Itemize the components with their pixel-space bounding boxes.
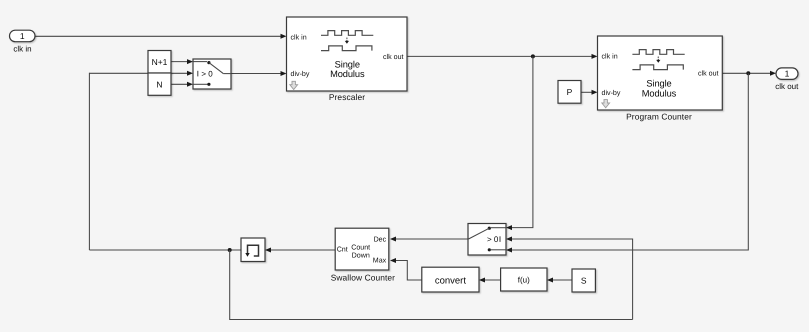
outport 1 clk out [775, 68, 799, 91]
svg-text:Cnt: Cnt [337, 246, 348, 254]
wire f(u) to convert [479, 278, 501, 283]
svg-text:1: 1 [785, 69, 790, 79]
inport 1 clk in [10, 30, 36, 53]
constant N+1 [148, 51, 171, 74]
svg-text:Single: Single [646, 79, 671, 89]
svg-text:P: P [567, 87, 573, 97]
svg-text:clk out: clk out [383, 53, 404, 61]
block Prescaler (Single Modulus) [287, 17, 408, 102]
wire J2 down to Switch2 in3 [506, 73, 748, 252]
switch SW1 [193, 59, 231, 89]
svg-text:clk out: clk out [775, 82, 799, 91]
variant badge arrow [602, 100, 610, 108]
junction J3 on feedback wire [228, 248, 232, 252]
block convert (data type conversion) [422, 267, 479, 292]
svg-text:> 0: > 0 [201, 69, 213, 78]
svg-text:clk in: clk in [291, 33, 307, 41]
svg-text:N+1: N+1 [152, 57, 168, 67]
svg-text:Modulus: Modulus [642, 88, 677, 98]
wire N to Switch1 in3 [171, 82, 193, 87]
svg-text:Down: Down [352, 251, 370, 259]
icon fast clock waveform [632, 50, 684, 55]
icon slow clock waveform [632, 65, 683, 70]
constant P [558, 81, 581, 104]
wire Switch2 out to Swallow Counter Dec [390, 237, 468, 242]
block Swallow Counter [331, 228, 395, 282]
svg-text:div-by: div-by [602, 89, 621, 97]
block Program Counter (Single Modulus) [598, 36, 723, 121]
wire Swallow Counter Cnt to Memory [265, 248, 336, 253]
svg-text:> 0: > 0 [487, 235, 499, 244]
svg-text:Single: Single [335, 59, 360, 69]
svg-text:clk in: clk in [602, 52, 618, 60]
svg-text:Modulus: Modulus [330, 69, 365, 79]
svg-text:Dec: Dec [374, 235, 387, 243]
block f(u) function [501, 268, 547, 291]
memory block (feedback loop icon) [241, 238, 265, 262]
icon slow clock waveform [321, 46, 372, 51]
svg-text:clk in: clk in [13, 45, 31, 54]
svg-text:1: 1 [20, 31, 25, 41]
svg-text:Prescaler: Prescaler [329, 92, 365, 102]
svg-text:f(u): f(u) [518, 275, 530, 284]
constant S [572, 269, 595, 292]
svg-text:Swallow Counter: Swallow Counter [331, 272, 395, 282]
variant badge arrow [290, 81, 298, 89]
wire N+1 to Switch1 in1 [171, 59, 193, 64]
icon divide arrow [345, 38, 349, 44]
wire S to f(u) [547, 278, 572, 283]
wire J3 down and along bottom [230, 250, 633, 320]
switch SW2 (mirrored) [468, 224, 506, 256]
wire convert to Swallow Counter Max [390, 258, 422, 280]
wire feedback to Switch1 control (node cnt) [89, 71, 193, 250]
wire Memory out feedback left [89, 249, 241, 251]
wire Prescaler clk-out to Program Counter clk-in [407, 54, 598, 59]
svg-text:S: S [581, 276, 587, 286]
wire inport1 to Prescaler clk-in [35, 34, 287, 39]
svg-text:clk out: clk out [698, 70, 719, 78]
junction J1 on clk wire [531, 54, 535, 58]
svg-text:N: N [156, 80, 162, 90]
wire P to Program Counter div-by [581, 90, 598, 95]
icon fast clock waveform [321, 31, 373, 36]
svg-text:div-by: div-by [291, 70, 310, 78]
wire Program Counter clk-out to outport [722, 71, 776, 76]
icon divide arrow [656, 57, 660, 63]
wire control branch to Switch2 control [506, 237, 633, 320]
wire J1 down to Switch2 in1 [506, 56, 533, 230]
svg-text:convert: convert [435, 275, 467, 286]
svg-text:Program Counter: Program Counter [626, 111, 692, 121]
wire Switch1 out to Prescaler div-by [231, 71, 287, 76]
constant N [148, 73, 171, 95]
junction J2 on clk-out wire [746, 71, 750, 75]
svg-text:Max: Max [373, 257, 387, 265]
